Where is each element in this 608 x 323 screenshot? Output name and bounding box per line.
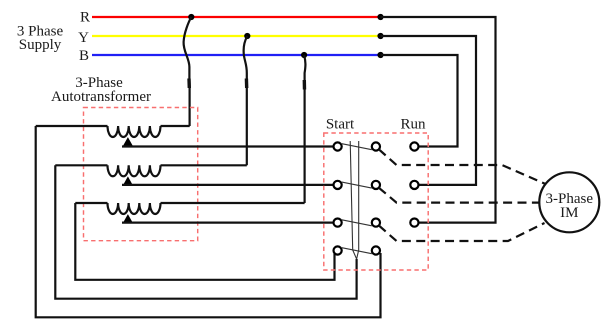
- wire coil L2 left lead: [55, 164, 107, 166]
- Start contact 2: [334, 181, 342, 189]
- Start contact 1: [334, 142, 342, 150]
- wire Y phase line (yellow): [92, 35, 381, 37]
- wiper arrow coil L3: [123, 214, 133, 223]
- Run contact 3: [410, 219, 418, 227]
- wire coil L1 left lead: [36, 125, 108, 127]
- blade row 3: [342, 220, 372, 226]
- label 3-Phase IM: [546, 191, 594, 221]
- svg-text:R: R: [80, 10, 90, 26]
- motor M1 circle: [539, 172, 599, 232]
- coil L1 winding: [108, 126, 161, 137]
- coil L2 winding: [108, 165, 161, 176]
- wire coil L3 left lead: [75, 202, 107, 204]
- wire tap 2 to Start contact 2: [122, 184, 334, 186]
- wire R tap overlap jog: [187, 79, 191, 89]
- svg-text:B: B: [79, 48, 89, 64]
- svg-text:Supply: Supply: [19, 37, 62, 53]
- dashed run-position blade row 3 to motor: [379, 223, 545, 241]
- node R tap junction: [188, 14, 194, 20]
- node B tap junction: [301, 52, 307, 58]
- dashed run-position blade row 1 to motor: [379, 149, 546, 184]
- wire R tap curved drop to coil 1: [184, 17, 192, 126]
- svg-text:Y: Y: [78, 30, 89, 46]
- blade row 1: [342, 144, 372, 150]
- pole contact 1: [372, 142, 380, 150]
- wire B to Run contact 1 (left riser): [381, 55, 458, 147]
- wire coil L2 right lead: [161, 164, 247, 166]
- svg-text:Autotransformer: Autotransformer: [51, 89, 151, 105]
- node R line end junction: [377, 14, 383, 20]
- svg-text:Start: Start: [326, 117, 355, 133]
- wire B phase line (blue): [92, 54, 381, 56]
- svg-text:IM: IM: [560, 205, 578, 221]
- switch gang bar: [350, 141, 359, 259]
- Start contact 3: [334, 219, 342, 227]
- Start contact 4: [334, 246, 342, 254]
- wire coil L3 return bus (inner): [75, 203, 334, 280]
- dashed run-position blade row 2 to motor: [379, 188, 540, 203]
- wire coil L1 return bus (outer): [36, 126, 381, 317]
- node Y line end junction: [377, 33, 383, 39]
- label 3-Phase Autotransformer: [51, 75, 151, 105]
- wire tap 1 to Start contact 1: [122, 145, 334, 147]
- Run contact 1: [410, 142, 418, 150]
- pole contact 2: [372, 181, 380, 189]
- wire tap 3 to Start contact 3: [122, 222, 334, 224]
- wire B tap overlap jog: [303, 80, 307, 90]
- switch dashed red box: [324, 133, 428, 270]
- wire coil L1 right lead: [161, 125, 190, 127]
- node Y tap junction: [244, 33, 250, 39]
- node B line end junction: [377, 52, 383, 58]
- wire coil L3 right lead: [161, 202, 305, 204]
- wiper arrow coil L2: [123, 176, 133, 185]
- wire B tap drop to coil 3: [304, 55, 305, 203]
- coil L3 winding: [108, 203, 161, 214]
- wire R phase line (red): [92, 16, 381, 18]
- blade row 2: [342, 182, 372, 188]
- wire R to Run contact 3 (right riser): [381, 17, 496, 223]
- wire Y tap curved drop to coil 2: [244, 36, 248, 165]
- autotransformer dashed red box: [84, 108, 198, 241]
- svg-text:Run: Run: [400, 117, 426, 133]
- wire coil L2 return bus (middle): [55, 165, 356, 298]
- wiper arrow coil L1: [123, 137, 133, 146]
- wire Y tap overlap jog: [245, 79, 249, 89]
- label 3 Phase Supply: [17, 24, 64, 54]
- blade row 4: [342, 248, 372, 254]
- pole contact 4: [372, 246, 380, 254]
- pole contact 3: [372, 219, 380, 227]
- wire Y to Run contact 2 (middle riser): [381, 36, 477, 185]
- Run contact 2: [410, 181, 418, 189]
